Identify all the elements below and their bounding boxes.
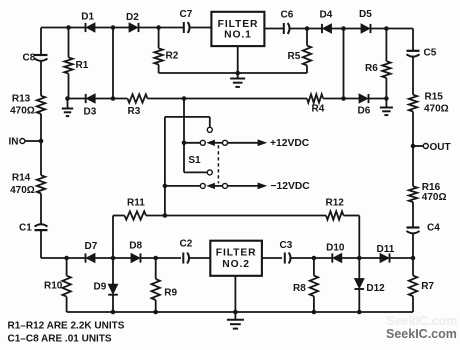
svg-text:R4: R4	[312, 103, 325, 114]
svg-text:C1–C8 ARE .01 UNITS: C1–C8 ARE .01 UNITS	[8, 334, 112, 345]
svg-text:SeekIC.com: SeekIC.com	[387, 314, 458, 328]
svg-text:R3: R3	[128, 106, 141, 117]
svg-text:C7: C7	[180, 9, 193, 20]
svg-text:C1: C1	[19, 223, 32, 234]
svg-text:470Ω: 470Ω	[10, 185, 35, 196]
svg-text:D10: D10	[326, 242, 345, 253]
svg-text:R2: R2	[166, 51, 179, 62]
svg-text:S1: S1	[188, 155, 201, 166]
svg-text:C4: C4	[427, 222, 440, 233]
svg-text:R9: R9	[164, 287, 177, 298]
svg-text:R15: R15	[425, 92, 444, 103]
svg-text:R7: R7	[421, 281, 434, 292]
svg-text:OUT: OUT	[430, 142, 451, 153]
svg-text:+12VDC: +12VDC	[270, 138, 310, 149]
svg-text:R8: R8	[293, 283, 306, 294]
svg-text:D4: D4	[320, 10, 333, 21]
svg-text:C6: C6	[281, 9, 294, 20]
svg-text:SeekIC.com: SeekIC.com	[386, 327, 457, 341]
svg-text:D3: D3	[84, 107, 97, 118]
svg-text:NO.2: NO.2	[222, 259, 250, 270]
svg-text:IN: IN	[9, 137, 19, 148]
svg-text:D11: D11	[377, 244, 395, 255]
svg-text:470Ω: 470Ω	[10, 106, 35, 117]
svg-text:D7: D7	[85, 241, 98, 252]
svg-text:R13: R13	[12, 93, 31, 104]
svg-text:R10: R10	[44, 280, 63, 291]
svg-text:R12: R12	[326, 198, 345, 209]
svg-text:C8: C8	[23, 53, 36, 64]
svg-text:FILTER: FILTER	[218, 19, 259, 30]
svg-text:470Ω: 470Ω	[422, 192, 447, 203]
svg-text:R11: R11	[127, 198, 145, 209]
svg-text:C3: C3	[280, 240, 293, 251]
svg-text:C2: C2	[180, 239, 193, 250]
svg-text:D9: D9	[94, 282, 107, 293]
svg-text:C5: C5	[424, 48, 437, 59]
svg-text:NO.1: NO.1	[224, 30, 252, 41]
svg-text:D8: D8	[129, 240, 142, 251]
svg-text:R5: R5	[288, 51, 301, 62]
svg-text:−12VDC: −12VDC	[271, 181, 311, 192]
svg-text:R14: R14	[12, 173, 31, 184]
svg-text:D1: D1	[81, 12, 94, 23]
svg-text:R6: R6	[365, 63, 378, 74]
svg-text:D2: D2	[126, 12, 139, 23]
svg-text:R1–R12 ARE 2.2K UNITS: R1–R12 ARE 2.2K UNITS	[8, 321, 125, 332]
svg-text:D5: D5	[359, 9, 372, 20]
svg-text:R1: R1	[76, 60, 89, 71]
svg-text:D6: D6	[358, 106, 371, 117]
svg-text:D12: D12	[366, 283, 385, 294]
svg-text:FILTER: FILTER	[216, 248, 257, 259]
svg-text:470Ω: 470Ω	[424, 104, 449, 115]
